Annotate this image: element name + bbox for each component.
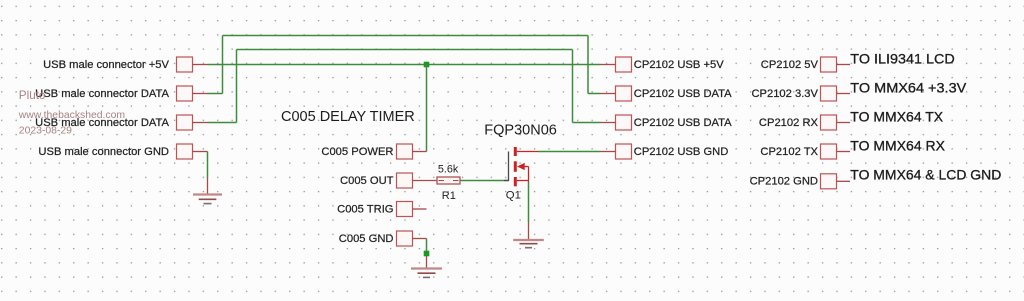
svg-text:CP2102 TX: CP2102 TX (760, 146, 818, 158)
net label TO MMX64 & LCD GND (850, 167, 1001, 183)
port CP2102 USB DATA (row3) (601, 115, 733, 130)
port CP2102 GND (row5) (750, 174, 850, 189)
svg-text:www.thebackshed.com: www.thebackshed.com (18, 110, 125, 121)
svg-text:2023-08-29: 2023-08-29 (19, 126, 72, 137)
svg-text:TO MMX64 +3.3V: TO MMX64 +3.3V (850, 80, 967, 96)
svg-text:C005 POWER: C005 POWER (321, 146, 393, 158)
ref label R1 (442, 190, 456, 202)
svg-text:TO ILI9341 LCD: TO ILI9341 LCD (850, 51, 955, 67)
watermark text www.thebackshed.com (18, 110, 125, 121)
svg-text:CP2102 USB +5V: CP2102 USB +5V (634, 59, 724, 71)
wire: R1 output to Q1 gate (460, 180, 509, 182)
ground (USB male connector GND) (193, 178, 222, 204)
svg-text:CP2102 5V: CP2102 5V (761, 59, 819, 71)
svg-text:C005 GND: C005 GND (339, 233, 394, 245)
resistor R1 (437, 177, 460, 184)
ground (Q1 source) (513, 222, 544, 248)
wire: +5V branch down to C005 POWER (426, 65, 428, 152)
svg-text:CP2102 GND: CP2102 GND (750, 176, 818, 188)
wire: row3 DATA right drop (572, 50, 574, 123)
wire: row3 DATA top horizontal (237, 49, 573, 51)
port CP2102 USB DATA (row2) (601, 86, 733, 101)
wire: USB +5V net row1 (208, 64, 601, 66)
junction on +5V net (424, 62, 430, 68)
wire: row2 DATA top horizontal (223, 35, 589, 37)
ground (C005 GND) (411, 256, 442, 277)
port USB male connector DATA (row2) (35, 86, 207, 101)
port C005 POWER (321, 144, 426, 159)
junction at C005 GND ground (424, 251, 430, 257)
svg-text:CP2102 USB DATA: CP2102 USB DATA (634, 117, 732, 129)
svg-text:CP2102 3.3V: CP2102 3.3V (751, 88, 818, 100)
port CP2102 3.3V (row2) (751, 86, 850, 101)
wire: row3 DATA right segment (573, 122, 601, 124)
wire: row2 DATA left riser (222, 36, 224, 94)
port CP2102 USB GND (row4) (601, 144, 729, 159)
port USB male connector GND (row4) (38, 144, 207, 159)
port C005 OUT (340, 173, 437, 188)
svg-text:TO MMX64 TX: TO MMX64 TX (850, 109, 944, 125)
value label 5.6k (438, 164, 459, 176)
svg-text:CP2102 USB DATA: CP2102 USB DATA (634, 88, 732, 100)
svg-text:5.6k: 5.6k (438, 164, 459, 176)
port CP2102 USB +5V (row1) (601, 57, 725, 72)
part label FQP30N06 (484, 123, 557, 139)
port USB male connector +5V (row1) (43, 57, 207, 72)
port C005 GND (339, 231, 427, 246)
svg-text:USB male connector DATA: USB male connector DATA (35, 88, 169, 100)
svg-text:TO MMX64 & LCD GND: TO MMX64 & LCD GND (850, 167, 1001, 183)
port CP2102 TX (row4) (760, 144, 850, 159)
net label TO ILI9341 LCD (850, 51, 955, 67)
wire: Q1 source down (528, 182, 530, 223)
svg-text:C005 TRIG: C005 TRIG (337, 203, 393, 215)
svg-text:R1: R1 (442, 190, 456, 202)
wire: row3 DATA left segment (208, 122, 237, 124)
svg-text:CP2102 RX: CP2102 RX (759, 117, 819, 129)
wire: row3 DATA left riser (236, 50, 238, 123)
net label TO MMX64 TX (850, 109, 944, 125)
transistor Q1 (N-MOSFET) (504, 147, 538, 186)
port CP2102 5V (row1) (761, 57, 850, 72)
wire: row2 DATA right segment (588, 93, 601, 95)
svg-text:FQP30N06: FQP30N06 (484, 123, 557, 139)
svg-text:C005 DELAY TIMER: C005 DELAY TIMER (281, 109, 415, 125)
port CP2102 RX (row3) (759, 115, 850, 130)
net label TO MMX64 +3.3V (850, 80, 967, 96)
svg-text:USB male connector +5V: USB male connector +5V (43, 59, 169, 71)
net label TO MMX64 RX (850, 138, 945, 154)
wire: Q1 drain to CP2102 USB GND (538, 151, 601, 153)
svg-text:Pluto: Pluto (19, 89, 46, 102)
watermark text 2023-08-29 (19, 126, 72, 137)
wire: row2 DATA right drop (587, 36, 589, 94)
ref label Q1 (506, 190, 521, 202)
port USB male connector DATA (row3) (35, 115, 207, 130)
wire: row2 DATA left segment (208, 93, 223, 95)
svg-text:Q1: Q1 (506, 190, 521, 202)
svg-text:TO MMX64 RX: TO MMX64 RX (850, 138, 945, 154)
svg-text:USB male connector GND: USB male connector GND (38, 146, 169, 158)
title C005 DELAY TIMER (281, 109, 415, 125)
svg-text:C005 OUT: C005 OUT (340, 175, 394, 187)
wire: USB GND drop to ground (207, 152, 209, 179)
watermark text Pluto (19, 89, 46, 102)
svg-text:CP2102 USB GND: CP2102 USB GND (634, 146, 729, 158)
port C005 TRIG (337, 202, 426, 217)
wire: C005 GND down (426, 239, 428, 252)
